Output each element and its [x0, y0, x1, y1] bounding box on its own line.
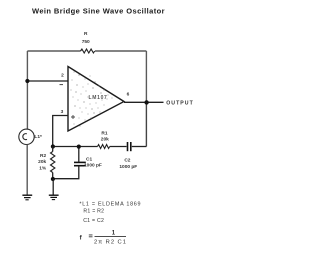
lamp L1: [19, 129, 34, 144]
svg-text:20k: 20k: [101, 137, 109, 143]
svg-text:OUTPUT: OUTPUT: [166, 101, 194, 107]
capacitor C2 plates: [127, 142, 129, 151]
svg-text:750: 750: [82, 39, 90, 45]
output node junction dot: [144, 100, 148, 104]
resistor R2 lead to node C: [52, 173, 54, 180]
wire: top horizontal left segment: [27, 50, 80, 52]
wire: non-inverting input, down to node B: [53, 116, 68, 147]
svg-text:f: f: [80, 235, 83, 242]
svg-text:LM107: LM107: [88, 95, 107, 101]
svg-text:1000 pF: 1000 pF: [119, 164, 137, 170]
svg-text:*L1 = ELDEMA 1869: *L1 = ELDEMA 1869: [79, 202, 141, 208]
wire: top horizontal right segment: [95, 50, 146, 52]
svg-text:C2: C2: [124, 157, 130, 163]
svg-text:R: R: [84, 31, 88, 37]
resistor R2 zigzag: [51, 152, 55, 173]
svg-text:6: 6: [127, 92, 130, 98]
op-amp speckle noise: [71, 72, 113, 127]
wire: bottom horizontal node B to R1: [53, 146, 98, 148]
svg-text:C1 = C2: C1 = C2: [83, 218, 104, 224]
node A junction dot: [25, 79, 29, 83]
wire: output: [124, 101, 164, 103]
svg-text:1%: 1%: [39, 165, 47, 171]
op-amp U1 triangle: [68, 67, 124, 132]
junction dot node C: [51, 177, 55, 181]
minus sign: [60, 84, 64, 86]
ground (below lamp): [22, 194, 32, 196]
svg-text:2π R2 C1: 2π R2 C1: [94, 240, 127, 246]
wire: right vertical from top corner to output node: [145, 51, 147, 102]
svg-text:2: 2: [61, 72, 64, 78]
junction dot node B: [51, 144, 55, 148]
svg-text:R1: R1: [101, 131, 107, 137]
wire: C2 to right vertical corner: [132, 146, 147, 148]
resistor R1 20k: [98, 145, 110, 149]
svg-text:3: 3: [61, 109, 64, 115]
plus sign: [71, 115, 75, 119]
svg-text:C1: C1: [86, 157, 92, 163]
wire: R1 to C2: [110, 146, 127, 148]
wire: right vertical from output node down to C2 corner: [145, 102, 147, 146]
ground (below R2): [49, 194, 59, 196]
capacitor C1 plates: [74, 161, 86, 163]
resistor R2 lead: [52, 147, 54, 152]
capacitor C1 bottom lead to node C: [53, 166, 79, 179]
capacitor C1 top lead: [78, 147, 80, 162]
resistor R3 (feedback, 750): [81, 49, 95, 53]
junction dot C1 top: [77, 145, 81, 149]
svg-text:1: 1: [112, 231, 116, 237]
wire: left vertical from top corner down to lamp: [26, 51, 28, 130]
svg-text:1000 pF: 1000 pF: [84, 162, 102, 168]
svg-text:Wein Bridge Sine Wave Oscillat: Wein Bridge Sine Wave Oscillator: [32, 6, 165, 15]
svg-text:R2: R2: [40, 153, 46, 159]
wire: inverting input from node A: [27, 80, 68, 82]
wire: lamp to ground: [26, 145, 28, 195]
svg-text:20k: 20k: [38, 159, 46, 165]
svg-text:R1 = R2: R1 = R2: [83, 209, 104, 215]
lamp filament loop: [23, 134, 27, 140]
wire: node C to ground: [52, 179, 54, 195]
svg-text:L1*: L1*: [34, 134, 42, 140]
